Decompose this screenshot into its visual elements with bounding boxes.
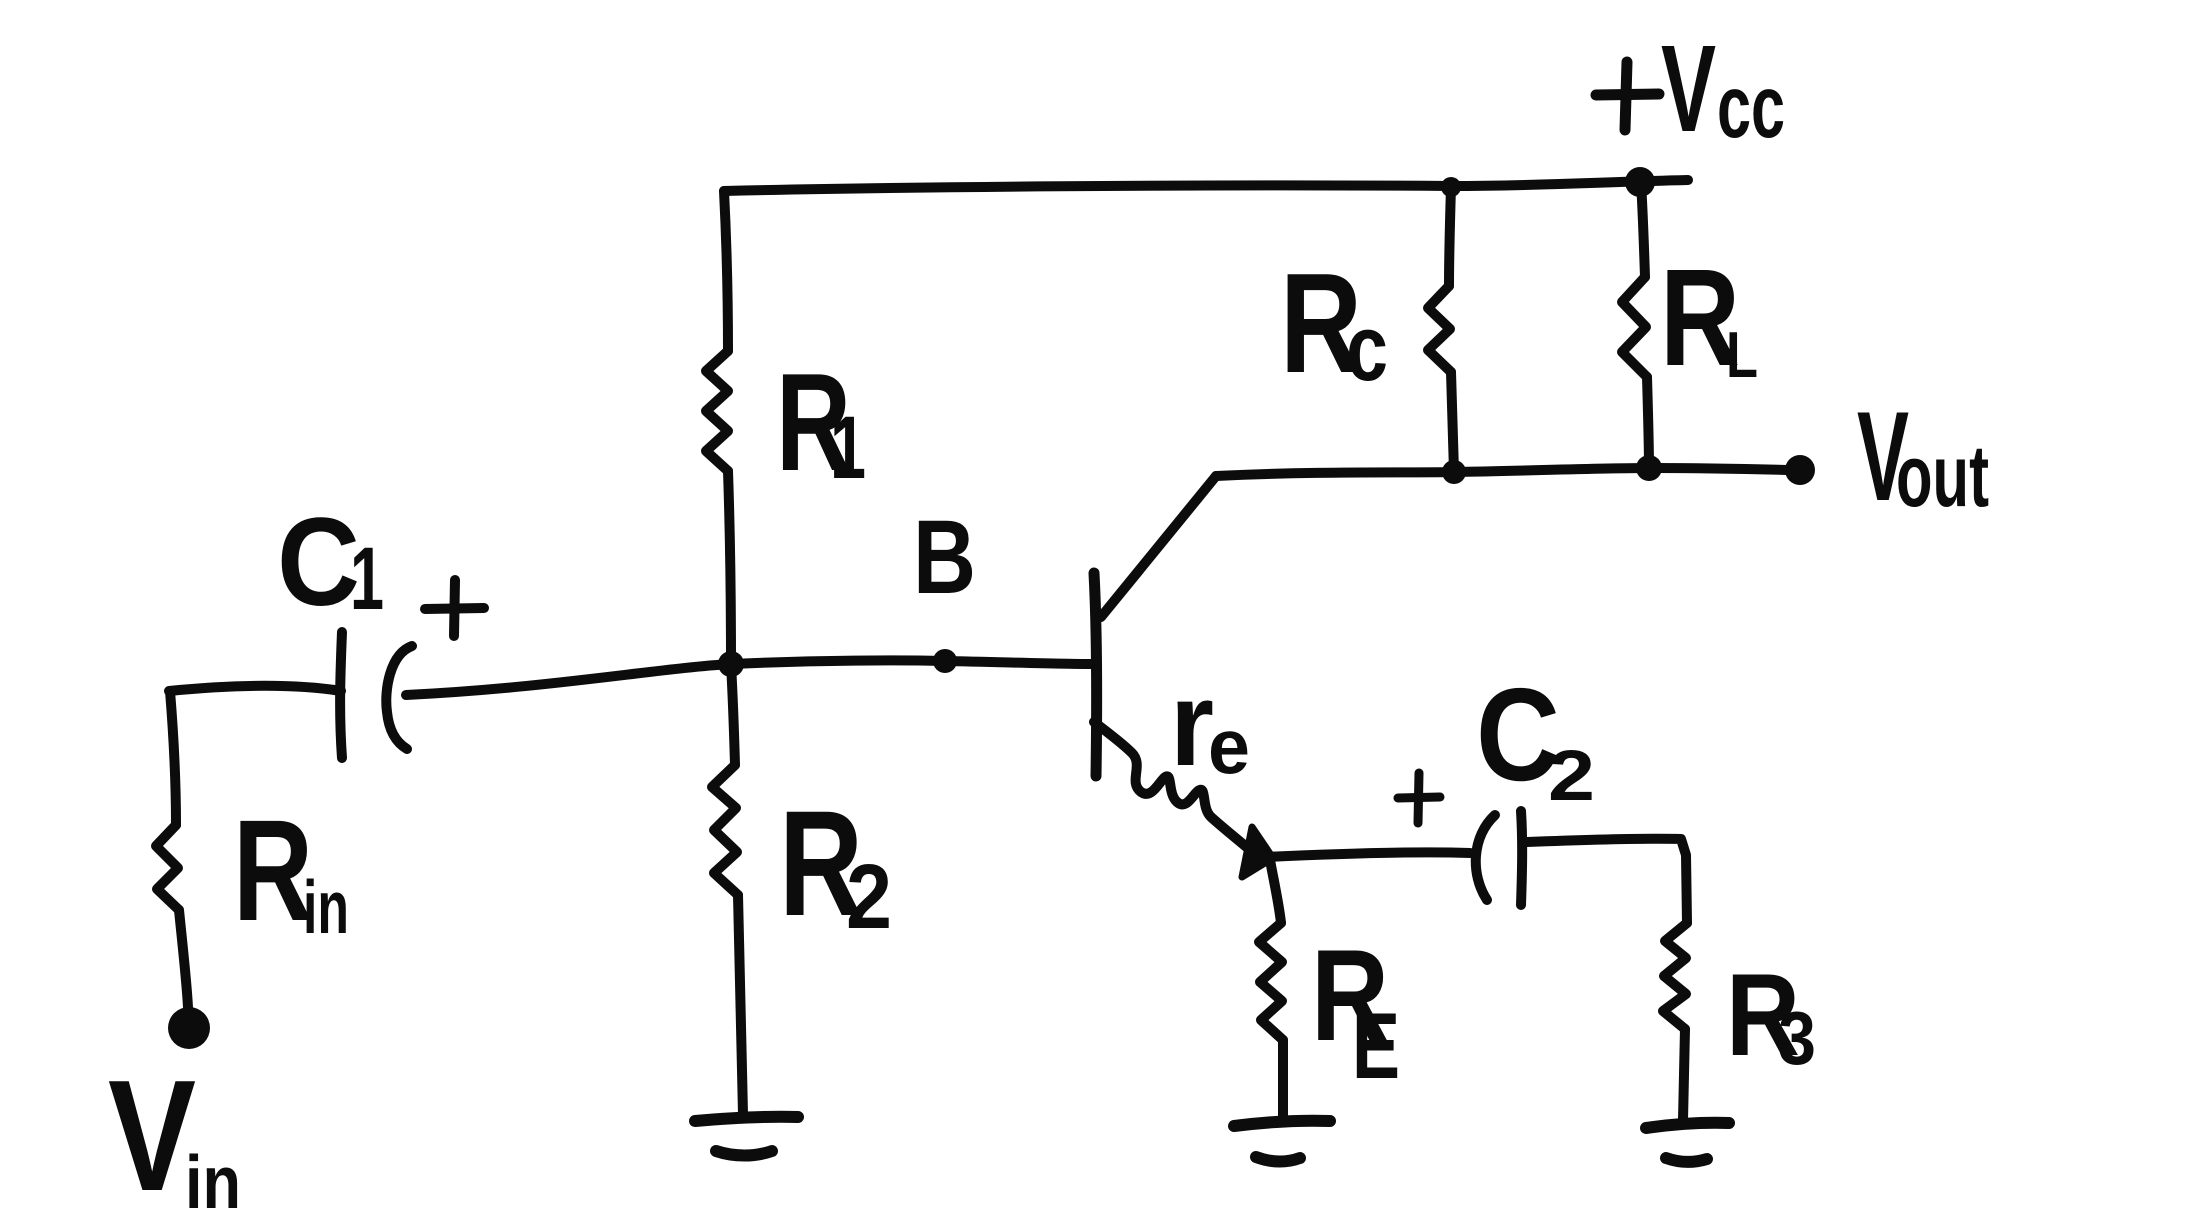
node R1/R2/base junction <box>718 651 744 677</box>
svg-text:2: 2 <box>1548 737 1595 816</box>
label C2 plus <box>1398 773 1440 823</box>
svg-text:C: C <box>277 493 360 632</box>
wire base <box>406 660 1093 695</box>
svg-text:c: c <box>1346 295 1388 400</box>
ground under R3 <box>1646 1123 1729 1162</box>
svg-text:1: 1 <box>830 397 866 497</box>
resistor R3 <box>1663 923 1687 1029</box>
wire emitter to RE <box>1270 860 1281 923</box>
svg-text:E: E <box>1352 993 1400 1098</box>
resistor RE <box>1259 923 1283 1040</box>
ground under R2 <box>695 1117 798 1156</box>
label +Vcc <box>1596 62 1659 130</box>
resistor Rc <box>1449 187 1451 286</box>
svg-text:1: 1 <box>350 528 384 628</box>
resistor R2 <box>731 664 735 765</box>
transistor Q1 collector <box>1101 476 1216 617</box>
svg-text:3: 3 <box>1778 996 1816 1080</box>
svg-text:2: 2 <box>846 846 892 948</box>
node Rc bottom junction <box>1442 460 1466 484</box>
capacitor C2 <box>1476 811 1522 905</box>
wire Vcc rail <box>724 180 1688 191</box>
svg-text:L: L <box>1726 318 1758 391</box>
capacitor C1 <box>340 632 412 758</box>
node B <box>933 649 957 673</box>
wire emitter to C2 <box>1266 852 1470 857</box>
svg-text:out: out <box>1896 426 1989 525</box>
svg-text:V: V <box>108 1048 196 1223</box>
svg-text:in: in <box>185 1140 241 1223</box>
node Vin <box>168 1007 210 1049</box>
resistor Rin <box>170 691 176 825</box>
node Vout terminal <box>1785 455 1815 485</box>
transistor Q1 emitter with re squiggle <box>1094 722 1250 850</box>
resistor RL <box>1641 182 1645 277</box>
transistor Q1 base bar <box>1094 573 1097 776</box>
wire C2 to R3 <box>1527 839 1687 923</box>
label C1 plus <box>425 580 484 636</box>
svg-text:B: B <box>913 499 976 616</box>
svg-text:cc: cc <box>1717 56 1785 156</box>
wire collector to Vout <box>1216 468 1787 476</box>
transistor Q1 emitter arrowhead <box>1242 827 1273 877</box>
node RL bottom junction <box>1636 455 1662 481</box>
wire input top <box>169 686 341 691</box>
node Rc top junction <box>1441 177 1461 197</box>
svg-text:V: V <box>1661 21 1716 158</box>
node +Vcc <box>1625 167 1655 197</box>
svg-text:e: e <box>1208 702 1250 790</box>
svg-text:R: R <box>233 790 313 951</box>
resistor R1 <box>724 191 728 351</box>
ground under RE <box>1234 1121 1330 1162</box>
svg-text:in: in <box>303 865 349 949</box>
